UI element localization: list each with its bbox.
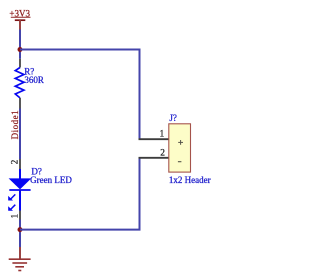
svg-text:360R: 360R: [24, 75, 44, 85]
resistor R? pin 1 stub: [19, 59, 21, 68]
svg-text:Diode1: Diode1: [10, 110, 20, 139]
ground symbol: [9, 247, 31, 271]
wire resistor to LED: [19, 109, 21, 160]
svg-text:2: 2: [160, 149, 165, 159]
svg-text:Green LED: Green LED: [30, 175, 72, 185]
svg-text:1x2 Header: 1x2 Header: [169, 175, 211, 185]
LED D? cathode lead: [19, 190, 21, 211]
wire LED to ground: [19, 220, 21, 248]
svg-text:1: 1: [9, 214, 19, 219]
resistor R? body: [15, 68, 24, 98]
LED D? cathode bar: [9, 189, 30, 191]
header J? minus mark: [178, 161, 182, 163]
header J? pin 1: [139, 138, 169, 140]
header J? body: [169, 124, 191, 172]
power port +3V3: [9, 8, 30, 30]
svg-text:2: 2: [9, 160, 19, 165]
svg-text:J?: J?: [169, 113, 177, 123]
LED D? triangle: [10, 179, 31, 189]
resistor R? pin 2 stub: [19, 98, 21, 109]
header J? plus mark: [178, 140, 183, 145]
junction node bottom: [18, 227, 23, 232]
LED D? emission arrow 2: [8, 205, 15, 211]
wire bottom horizontal to header pin 2: [20, 158, 140, 230]
wire from +3V3 to resistor: [19, 30, 21, 59]
LED D? pin 1 stub: [19, 211, 21, 220]
svg-text:1: 1: [159, 130, 164, 140]
LED D? pin 2 stub: [19, 159, 21, 169]
wire top horizontal to header pin 1: [20, 50, 140, 140]
junction node top: [18, 47, 23, 52]
header J? pin 2: [139, 157, 169, 159]
LED D? emission arrow 1: [8, 194, 15, 200]
LED D? anode lead: [19, 169, 21, 179]
